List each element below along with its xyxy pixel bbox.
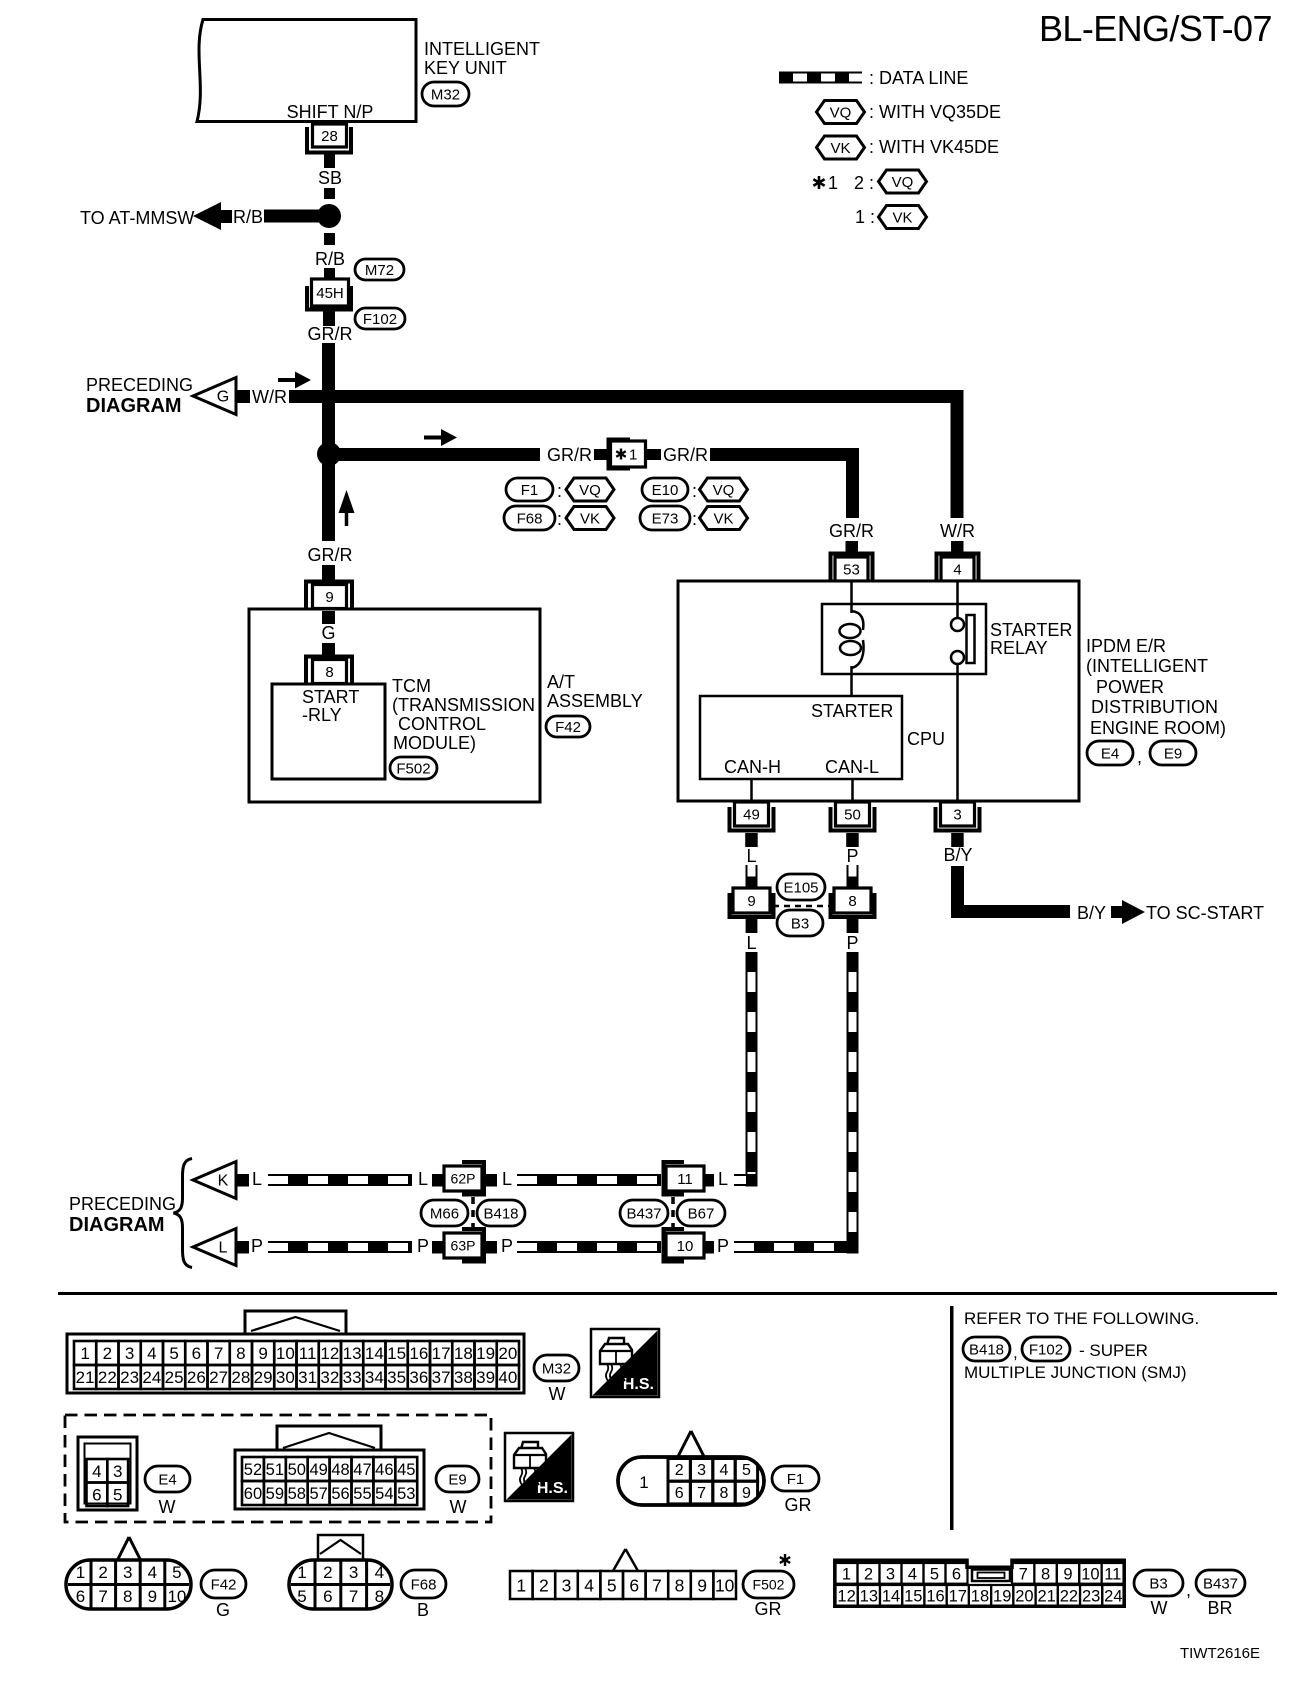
legend data line sample xyxy=(779,72,862,84)
svg-text:60: 60 xyxy=(244,1485,262,1503)
svg-text:REFER TO THE FOLLOWING.: REFER TO THE FOLLOWING. xyxy=(964,1309,1199,1328)
svg-text:8: 8 xyxy=(848,893,856,910)
svg-text:R/B: R/B xyxy=(233,207,263,227)
svg-text:10: 10 xyxy=(167,1587,186,1606)
svg-text:58: 58 xyxy=(288,1485,306,1503)
svg-text:7: 7 xyxy=(98,1587,107,1606)
svg-text:12: 12 xyxy=(320,1344,339,1363)
connector oval E9 (face) xyxy=(436,1466,479,1492)
svg-text:6: 6 xyxy=(192,1344,201,1363)
svg-text:R/B: R/B xyxy=(315,249,345,269)
svg-text:PRECEDING: PRECEDING xyxy=(86,375,193,395)
svg-text:B437: B437 xyxy=(1203,1575,1238,1592)
connector 3 (IPDM B/Y) xyxy=(936,807,980,831)
arrow TO SC-START xyxy=(1111,906,1124,918)
connector 11 (B437/B67) xyxy=(664,1162,685,1195)
connector 4 (IPDM) xyxy=(937,554,979,581)
svg-text:VQ: VQ xyxy=(892,174,914,191)
svg-text:KEY UNIT: KEY UNIT xyxy=(424,58,507,78)
direction arrow on GR/R branch xyxy=(424,436,444,440)
svg-text::: : xyxy=(692,481,697,501)
svg-text:3: 3 xyxy=(953,806,961,823)
wire B/Y to SC-START xyxy=(958,866,1071,912)
dashed link 62P/63P xyxy=(471,1197,475,1232)
connector oval E4 (face) xyxy=(145,1466,190,1492)
svg-text:9: 9 xyxy=(325,589,333,606)
wire stub G to pin 8 xyxy=(322,643,335,656)
svg-text:P: P xyxy=(501,1236,513,1256)
svg-text:16: 16 xyxy=(409,1344,428,1363)
svg-text:17: 17 xyxy=(949,1588,967,1606)
svg-text:(TRANSMISSION: (TRANSMISSION xyxy=(392,695,535,715)
svg-text:1: 1 xyxy=(80,1344,89,1363)
wire GR/R from *1 to IPDM pin 53 xyxy=(710,455,853,519)
connector oval E105 xyxy=(777,874,825,900)
svg-text:5: 5 xyxy=(742,1462,751,1479)
svg-text:B437: B437 xyxy=(626,1205,661,1222)
svg-text:BR: BR xyxy=(1207,1598,1232,1618)
svg-text:VQ: VQ xyxy=(579,482,601,499)
svg-text:17: 17 xyxy=(432,1344,451,1363)
svg-text:2 :: 2 : xyxy=(854,173,874,193)
svg-text:B418: B418 xyxy=(969,1341,1004,1358)
svg-text:14: 14 xyxy=(882,1588,900,1606)
svg-text:49: 49 xyxy=(309,1461,327,1479)
connector oval F68 (face) xyxy=(401,1570,446,1598)
svg-text:,: , xyxy=(1013,1343,1018,1362)
connector 62P (SMJ M66/B418) xyxy=(462,1162,484,1195)
svg-text:2: 2 xyxy=(103,1344,112,1363)
svg-text:M66: M66 xyxy=(430,1205,459,1222)
svg-text:1: 1 xyxy=(842,1566,851,1584)
svg-text:M32: M32 xyxy=(542,1360,571,1377)
svg-text:2: 2 xyxy=(323,1563,332,1582)
svg-text:24: 24 xyxy=(1104,1588,1122,1606)
svg-text:4: 4 xyxy=(908,1566,917,1584)
svg-text:3: 3 xyxy=(123,1563,132,1582)
svg-text:G: G xyxy=(217,389,229,406)
legend hexagon VQ for *1=2 xyxy=(879,170,927,193)
svg-text:5: 5 xyxy=(930,1566,939,1584)
harness symbol H.S. 2 xyxy=(505,1433,573,1501)
svg-text:15: 15 xyxy=(387,1344,406,1363)
svg-text:GR/R: GR/R xyxy=(308,545,353,565)
connector *1 xyxy=(609,440,631,469)
connector oval F68 with VK xyxy=(504,506,555,530)
connector oval E73 with VK xyxy=(640,506,690,530)
svg-text:INTELLIGENT: INTELLIGENT xyxy=(424,39,540,59)
wire P data line row end segment xyxy=(734,1241,847,1253)
svg-text:W: W xyxy=(1151,1598,1168,1618)
svg-text:CONTROL: CONTROL xyxy=(398,714,486,734)
legend hexagon VQ xyxy=(817,101,865,124)
svg-text:62P: 62P xyxy=(451,1171,476,1187)
wire P data line row segment 2 xyxy=(517,1241,661,1253)
svg-text:TIWT2616E: TIWT2616E xyxy=(1180,1645,1260,1662)
svg-text:GR/R: GR/R xyxy=(547,445,592,465)
svg-text:8: 8 xyxy=(375,1587,384,1606)
svg-text:: DATA LINE: : DATA LINE xyxy=(869,68,968,88)
connector oval F502 (TCM) xyxy=(390,757,437,779)
connector oval B418 (refer) xyxy=(963,1337,1010,1361)
svg-text:7: 7 xyxy=(1019,1566,1028,1584)
svg-text:3: 3 xyxy=(562,1575,572,1595)
svg-text:K: K xyxy=(218,1173,229,1190)
svg-text:L: L xyxy=(252,1169,262,1189)
svg-text:53: 53 xyxy=(397,1485,415,1503)
svg-text:W: W xyxy=(159,1497,176,1517)
svg-text:F502: F502 xyxy=(753,1577,785,1593)
component box CPU xyxy=(700,696,902,779)
wire stub at L triangle xyxy=(236,1241,249,1254)
connector oval B437 (face) xyxy=(1196,1570,1245,1596)
wire CAN-L data line vertical (P) xyxy=(847,952,859,1241)
svg-text:GR: GR xyxy=(785,1495,812,1515)
wire relay coil to CPU STARTER xyxy=(850,666,853,697)
svg-text:8: 8 xyxy=(720,1485,729,1502)
svg-text:46: 46 xyxy=(375,1461,393,1479)
svg-text::: : xyxy=(692,509,697,529)
svg-text:RELAY: RELAY xyxy=(990,638,1048,658)
legend hexagon VK xyxy=(817,136,865,159)
svg-text:GR: GR xyxy=(755,1599,782,1619)
dashed group box E4/E9 xyxy=(65,1415,491,1522)
triangle connector G from preceding diagram xyxy=(193,378,236,415)
wire R/B (dashed) below junction xyxy=(324,233,335,245)
svg-text:7: 7 xyxy=(697,1485,706,1502)
svg-text:E73: E73 xyxy=(652,510,679,527)
svg-text:18: 18 xyxy=(454,1344,473,1363)
wire P data line row segment 1 xyxy=(268,1241,412,1253)
svg-text:(INTELLIGENT: (INTELLIGENT xyxy=(1086,656,1208,676)
svg-text:5: 5 xyxy=(172,1563,181,1582)
connector oval M72 xyxy=(355,259,404,280)
wire P data line into inline connector 8 xyxy=(847,865,859,888)
svg-text:3: 3 xyxy=(113,1462,122,1481)
svg-text:20: 20 xyxy=(498,1344,517,1363)
connector oval E9 (IPDM) xyxy=(1150,741,1196,765)
svg-text:L: L xyxy=(746,846,756,866)
svg-text:1: 1 xyxy=(516,1575,526,1595)
direction arrow up on GR/R vertical xyxy=(345,512,349,526)
svg-text:21: 21 xyxy=(76,1368,95,1387)
wire L data line row segment 1 xyxy=(268,1174,412,1186)
svg-text:8: 8 xyxy=(236,1344,245,1363)
wire stub at G triangle xyxy=(236,390,250,403)
svg-text:25: 25 xyxy=(165,1368,184,1387)
svg-text:F502: F502 xyxy=(396,760,430,777)
svg-text:7: 7 xyxy=(349,1587,358,1606)
svg-text:55: 55 xyxy=(353,1485,371,1503)
svg-text:TCM: TCM xyxy=(392,676,431,696)
svg-text:F1: F1 xyxy=(521,482,539,499)
svg-text:54: 54 xyxy=(375,1485,393,1503)
connector face B3/B437 (24 pin) xyxy=(835,1560,1124,1606)
curly brace xyxy=(174,1159,193,1268)
svg-text:13: 13 xyxy=(860,1588,878,1606)
svg-text:2: 2 xyxy=(539,1575,549,1595)
svg-text:4: 4 xyxy=(375,1563,384,1582)
connector 50 (IPDM CAN-L) xyxy=(831,807,875,831)
legend note *1 xyxy=(818,176,821,189)
svg-text:8: 8 xyxy=(325,664,333,681)
svg-text:F68: F68 xyxy=(411,1576,437,1593)
direction arrow on W/R wire xyxy=(278,378,298,382)
svg-text:19: 19 xyxy=(993,1588,1011,1606)
wire CAN-L data line vertical (L) xyxy=(746,952,758,1174)
svg-text:W: W xyxy=(549,1384,566,1404)
svg-text:16: 16 xyxy=(926,1588,944,1606)
svg-text:6: 6 xyxy=(92,1485,101,1504)
connector 10 (B437/B67) xyxy=(664,1229,685,1262)
connector 49 (IPDM CAN-H) xyxy=(730,807,774,831)
svg-text:VK: VK xyxy=(892,209,912,226)
svg-text:10: 10 xyxy=(1081,1566,1099,1584)
svg-text:19: 19 xyxy=(476,1344,495,1363)
connector oval F102 xyxy=(355,308,405,329)
svg-text:14: 14 xyxy=(365,1344,384,1363)
svg-text:P: P xyxy=(717,1236,729,1256)
svg-text:4: 4 xyxy=(720,1462,729,1479)
svg-text:7: 7 xyxy=(214,1344,223,1363)
connector face E9 (16 pin) xyxy=(277,1426,381,1452)
svg-text:B: B xyxy=(417,1600,429,1620)
svg-text:6: 6 xyxy=(323,1587,332,1606)
svg-text:E4: E4 xyxy=(158,1471,176,1488)
wire stub to TCM pin 9 xyxy=(322,565,335,581)
svg-text:VK: VK xyxy=(830,140,850,157)
svg-text:P: P xyxy=(846,933,858,953)
wire pin53 to relay coil xyxy=(850,581,853,613)
svg-text:- SUPER: - SUPER xyxy=(1079,1341,1148,1360)
wire GR/R main vertical xyxy=(322,343,335,541)
svg-text:49: 49 xyxy=(743,806,760,823)
svg-text:5: 5 xyxy=(297,1587,306,1606)
svg-text:1 :: 1 : xyxy=(855,207,875,227)
svg-text:39: 39 xyxy=(476,1368,495,1387)
triangle connector K from preceding diagram xyxy=(193,1162,236,1199)
svg-text:53: 53 xyxy=(843,561,860,578)
svg-text:B67: B67 xyxy=(688,1205,715,1222)
svg-text:F68: F68 xyxy=(517,510,543,527)
inline connector 9 (E105/B3) xyxy=(730,893,774,917)
svg-text:L: L xyxy=(219,1240,228,1257)
svg-text:56: 56 xyxy=(331,1485,349,1503)
svg-text:45: 45 xyxy=(397,1461,415,1479)
svg-text:P: P xyxy=(417,1236,429,1256)
inline connector 8 (E105/B3) xyxy=(831,893,875,917)
svg-text:45H: 45H xyxy=(316,285,344,302)
svg-text:28: 28 xyxy=(231,1368,250,1387)
connector face F1 (9 pin) xyxy=(678,1431,704,1457)
svg-text:TO SC-START: TO SC-START xyxy=(1146,903,1264,923)
wire L data line into inline connector 9 xyxy=(746,865,758,888)
connector 9 (F42 pin 9) xyxy=(306,582,352,609)
svg-text:F1: F1 xyxy=(787,1471,805,1488)
svg-text:STARTER: STARTER xyxy=(990,620,1072,640)
connector oval B437 xyxy=(620,1200,668,1226)
connector oval F42 (A/T) xyxy=(546,716,590,737)
svg-text:L: L xyxy=(418,1169,428,1189)
svg-text:,: , xyxy=(1186,1580,1191,1600)
svg-text:SHIFT N/P: SHIFT N/P xyxy=(287,102,374,122)
svg-text:3: 3 xyxy=(349,1563,358,1582)
wire relay contact to pin 3 xyxy=(956,663,959,801)
svg-text:2: 2 xyxy=(864,1566,873,1584)
svg-text:F42: F42 xyxy=(555,719,581,736)
svg-text:B/Y: B/Y xyxy=(943,845,972,865)
svg-text:30: 30 xyxy=(276,1368,295,1387)
connector oval F1 with VQ xyxy=(506,478,553,501)
svg-text:B/Y: B/Y xyxy=(1077,903,1106,923)
component box INTELLIGENT KEY UNIT (M32) xyxy=(197,20,416,122)
svg-text:23: 23 xyxy=(1082,1588,1100,1606)
svg-text:3: 3 xyxy=(886,1566,895,1584)
connector 53 (IPDM) xyxy=(831,554,873,581)
dashed link between inline connectors xyxy=(773,905,831,908)
svg-text:DISTRIBUTION: DISTRIBUTION xyxy=(1091,697,1218,717)
connector oval M32 (face) xyxy=(534,1355,579,1381)
wire stub below inline 8 xyxy=(847,919,859,933)
svg-text:CAN-H: CAN-H xyxy=(724,757,781,777)
junction node at SB/R-B split xyxy=(317,204,341,228)
svg-text:9: 9 xyxy=(742,1485,751,1502)
svg-text:10: 10 xyxy=(715,1575,735,1595)
wire pin4 to relay contact xyxy=(956,581,959,618)
svg-text:32: 32 xyxy=(320,1368,339,1387)
svg-text:28: 28 xyxy=(321,128,338,145)
svg-text:L: L xyxy=(502,1169,512,1189)
svg-text:5: 5 xyxy=(607,1575,617,1595)
svg-text:13: 13 xyxy=(343,1344,362,1363)
harness symbol H.S. 1 xyxy=(591,1329,659,1397)
svg-text:5: 5 xyxy=(169,1344,178,1363)
svg-text:12: 12 xyxy=(837,1588,855,1606)
connector 63P (SMJ M66/B418) xyxy=(462,1229,484,1262)
connector oval M32 xyxy=(422,82,469,106)
svg-text:STARTER: STARTER xyxy=(811,701,893,721)
connector oval B418 xyxy=(477,1200,525,1226)
svg-text:MODULE): MODULE) xyxy=(393,733,476,753)
svg-text:31: 31 xyxy=(298,1368,317,1387)
wire stub pin9 to G xyxy=(322,611,335,624)
svg-text:23: 23 xyxy=(120,1368,139,1387)
svg-text:6: 6 xyxy=(76,1587,85,1606)
svg-text:M32: M32 xyxy=(431,86,460,103)
svg-text:9: 9 xyxy=(258,1344,267,1363)
svg-text:51: 51 xyxy=(266,1461,284,1479)
svg-text:26: 26 xyxy=(187,1368,206,1387)
svg-text:2: 2 xyxy=(98,1563,107,1582)
svg-text:CAN-L: CAN-L xyxy=(825,757,879,777)
svg-text:11: 11 xyxy=(1104,1566,1121,1584)
svg-text:9: 9 xyxy=(1063,1566,1072,1584)
connector oval F1 (face) xyxy=(772,1466,819,1491)
svg-text:5: 5 xyxy=(113,1485,122,1504)
svg-text:9: 9 xyxy=(148,1587,157,1606)
svg-text:21: 21 xyxy=(1037,1588,1055,1606)
svg-text:29: 29 xyxy=(254,1368,273,1387)
svg-text:L: L xyxy=(746,933,756,953)
dashed link 11/10 xyxy=(671,1197,675,1232)
svg-text:P: P xyxy=(846,846,858,866)
svg-text:11: 11 xyxy=(299,1344,317,1363)
svg-text:3: 3 xyxy=(697,1462,706,1479)
svg-text:F102: F102 xyxy=(363,311,397,328)
svg-text:8: 8 xyxy=(123,1587,132,1606)
svg-text:10: 10 xyxy=(276,1344,295,1363)
svg-text:50: 50 xyxy=(288,1461,306,1479)
svg-text:CPU: CPU xyxy=(907,729,945,749)
svg-text:15: 15 xyxy=(904,1588,922,1606)
refer panel divider xyxy=(950,1306,954,1530)
wire stub below 49 xyxy=(745,833,758,847)
svg-text:40: 40 xyxy=(498,1368,517,1387)
svg-text:50: 50 xyxy=(844,806,861,823)
svg-text:G: G xyxy=(216,1600,230,1620)
connector 28 (pin 28 of M32) xyxy=(324,152,335,164)
svg-text:B3: B3 xyxy=(1149,1575,1167,1592)
svg-text:8: 8 xyxy=(675,1575,685,1595)
wire CAN-L to pin 50 xyxy=(851,779,854,801)
svg-text:4: 4 xyxy=(148,1563,157,1582)
svg-text:4: 4 xyxy=(584,1575,594,1595)
connector face M32 (40 pin) xyxy=(245,1311,346,1337)
svg-text:,: , xyxy=(1137,747,1142,767)
svg-text:PRECEDING: PRECEDING xyxy=(69,1194,176,1214)
svg-text:VQ: VQ xyxy=(830,104,852,121)
svg-text:G: G xyxy=(321,623,335,643)
svg-text:POWER: POWER xyxy=(1096,677,1164,697)
svg-text:B3: B3 xyxy=(791,915,809,932)
svg-text:E105: E105 xyxy=(783,879,818,896)
svg-text::: : xyxy=(557,509,562,529)
svg-text:63P: 63P xyxy=(451,1238,476,1254)
svg-text:W/R: W/R xyxy=(940,521,975,541)
svg-text:4: 4 xyxy=(147,1344,156,1363)
svg-text:9: 9 xyxy=(747,893,755,910)
connector face F68 (8 pin) xyxy=(318,1535,363,1560)
svg-text:1: 1 xyxy=(828,173,838,193)
svg-text:1: 1 xyxy=(629,447,637,464)
svg-text:48: 48 xyxy=(331,1461,349,1479)
connector oval M66 xyxy=(421,1200,468,1226)
svg-text:22: 22 xyxy=(98,1368,117,1387)
svg-text:W: W xyxy=(450,1497,467,1517)
svg-text:34: 34 xyxy=(365,1368,384,1387)
wire stub to pin 4 xyxy=(951,541,964,552)
svg-text:35: 35 xyxy=(387,1368,406,1387)
component box IPDM E/R xyxy=(678,581,1079,801)
svg-text:4: 4 xyxy=(953,561,961,578)
component box START-RLY inside TCM xyxy=(272,684,385,779)
wire W/R horizontal to IPDM pin 4 xyxy=(289,397,957,519)
svg-text:36: 36 xyxy=(409,1368,428,1387)
svg-text:VK: VK xyxy=(580,510,600,527)
wire CAN-H to pin 49 xyxy=(750,779,753,801)
svg-text:8: 8 xyxy=(1041,1566,1050,1584)
connector oval E10 with VQ xyxy=(642,478,688,501)
svg-text:38: 38 xyxy=(454,1368,473,1387)
svg-text:-RLY: -RLY xyxy=(302,705,342,725)
svg-text:E10: E10 xyxy=(652,482,679,499)
svg-text:L: L xyxy=(718,1169,728,1189)
wire L data line row segment 2 xyxy=(517,1174,661,1186)
connector oval F502 (face) xyxy=(743,1571,794,1598)
connector oval F102 (refer) xyxy=(1022,1337,1070,1361)
svg-text:18: 18 xyxy=(971,1588,989,1606)
svg-text:H.S.: H.S. xyxy=(537,1480,568,1497)
